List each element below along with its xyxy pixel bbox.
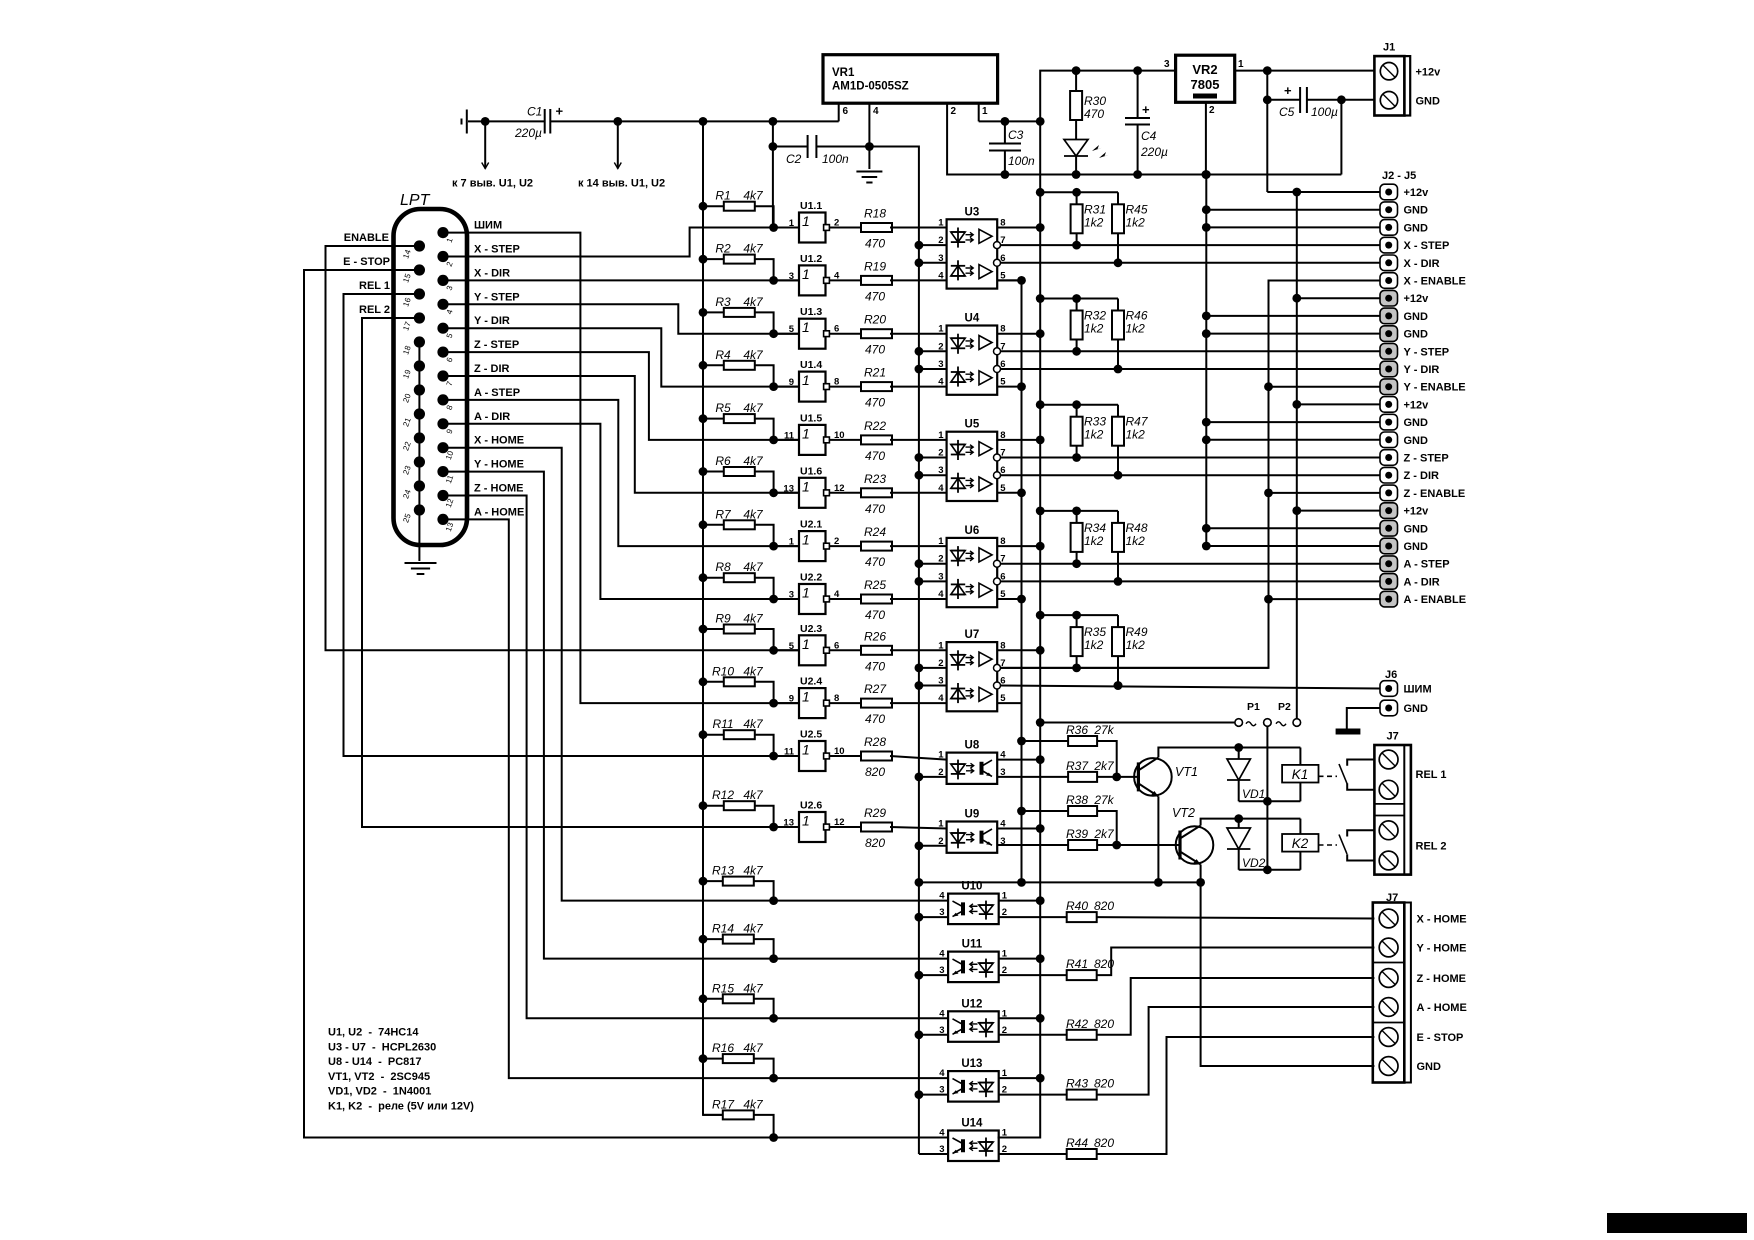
svg-text:11: 11 bbox=[784, 747, 795, 758]
wire 5V rail to bus bbox=[979, 120, 1040, 122]
svg-text:C5: C5 bbox=[1279, 105, 1295, 119]
wire U3 pin2 to gnd bus bbox=[919, 244, 947, 246]
svg-text:A - HOME: A - HOME bbox=[474, 506, 524, 518]
svg-text:R2: R2 bbox=[715, 242, 731, 256]
pin J2-J5 A - DIR row 23 bbox=[1380, 574, 1398, 590]
wire U8 pin2 to gnd bus bbox=[919, 776, 947, 778]
node gnd bus emitter rail bbox=[915, 878, 924, 887]
svg-text:R1: R1 bbox=[715, 189, 730, 203]
svg-text:U1, U2 - 74HC14: U1, U2 - 74HC14 bbox=[328, 1027, 419, 1039]
node C2 branch junction bbox=[769, 117, 778, 126]
wire U10 pin3 to gnd bus bbox=[919, 916, 948, 918]
resistor R38 27k bbox=[1017, 807, 1026, 816]
relay coil K2 bbox=[1299, 819, 1301, 834]
svg-text:1: 1 bbox=[802, 319, 810, 335]
pin J2-J5 X - DIR row 5 bbox=[1380, 255, 1398, 271]
svg-text:U1.5: U1.5 bbox=[800, 412, 822, 424]
LPT pins 1-13 bbox=[437, 227, 448, 238]
resistor R9 4k7 bbox=[699, 625, 708, 634]
wire ground rail bbox=[1005, 174, 1342, 176]
svg-text:4k7: 4k7 bbox=[743, 922, 764, 936]
node C4 bottom bbox=[1133, 170, 1142, 179]
wire U13 pin3 to gnd bus bbox=[919, 1094, 948, 1096]
svg-text:C1: C1 bbox=[527, 105, 542, 119]
svg-text:1: 1 bbox=[938, 324, 944, 335]
resistor R32 1k2 bbox=[1036, 294, 1045, 303]
wire U7 pin2 to gnd bus bbox=[919, 667, 947, 669]
wire VT2 collector bbox=[1201, 819, 1301, 826]
arrow to pin 7 of U1,U2 bbox=[484, 121, 486, 168]
svg-text:REL 1: REL 1 bbox=[1416, 769, 1447, 781]
diode VD2 bbox=[1234, 814, 1243, 823]
resistor R12 4k7 bbox=[699, 801, 708, 810]
svg-text:R23: R23 bbox=[864, 472, 886, 486]
svg-text:R45: R45 bbox=[1126, 202, 1148, 216]
node C5 top branch bbox=[1263, 66, 1272, 75]
svg-text:R47: R47 bbox=[1126, 415, 1149, 429]
svg-text:A - ENABLE: A - ENABLE bbox=[1404, 594, 1467, 606]
wire +12v bus bbox=[1296, 192, 1298, 719]
svg-text:R19: R19 bbox=[864, 259, 886, 273]
svg-text:2k7: 2k7 bbox=[1093, 827, 1115, 841]
node channel 4 input bbox=[769, 382, 778, 391]
svg-text:1: 1 bbox=[802, 266, 810, 282]
wire LPT pin 11 to row bbox=[443, 472, 948, 959]
svg-text:VT2: VT2 bbox=[1172, 806, 1195, 820]
svg-text:2: 2 bbox=[1209, 105, 1215, 116]
wire E-STOP from LPT pin 15 bbox=[304, 270, 948, 1138]
ground iso symbol bbox=[856, 171, 882, 173]
wire U6 pin3 to gnd bus bbox=[919, 580, 947, 582]
wire VT2 emitter bbox=[1200, 865, 1202, 883]
wire K2 bottom rail bbox=[1239, 869, 1301, 871]
wire VCC2 bus bbox=[998, 121, 1041, 1137]
svg-text:7805: 7805 bbox=[1191, 77, 1220, 92]
svg-text:P2: P2 bbox=[1278, 701, 1291, 713]
node GND-iso arrow junction bbox=[481, 117, 490, 126]
svg-text:R21: R21 bbox=[864, 366, 886, 380]
svg-text:E - STOP: E - STOP bbox=[343, 256, 390, 268]
IC VR2 7805 bbox=[1176, 55, 1235, 102]
resistor R29 820 bbox=[829, 826, 861, 828]
node R30 bottom bbox=[1072, 170, 1081, 179]
svg-text:4k7: 4k7 bbox=[743, 401, 764, 415]
resistor R6 4k7 bbox=[699, 467, 708, 476]
svg-text:U14: U14 bbox=[961, 1118, 983, 1130]
wire U4 pin5 to bus bbox=[997, 386, 1021, 388]
wire LPT pin 6 to row bbox=[443, 352, 799, 440]
svg-text:1k2: 1k2 bbox=[1126, 322, 1146, 336]
node C3 top bbox=[1001, 117, 1010, 126]
wire +12v row bbox=[1267, 191, 1380, 193]
wire R43 to J7 bbox=[1097, 1007, 1375, 1095]
svg-text:470: 470 bbox=[1084, 107, 1104, 121]
wire U10 pin1 to VCC2 bus bbox=[999, 900, 1040, 902]
svg-text:C3: C3 bbox=[1008, 128, 1024, 142]
svg-text:J6: J6 bbox=[1385, 669, 1397, 681]
resistor R7 4k7 bbox=[699, 520, 708, 529]
node channel 6 input bbox=[769, 488, 778, 497]
wire U7 pin7 to enable bus bbox=[1001, 667, 1269, 669]
capacitor C4 bbox=[1133, 66, 1142, 75]
svg-text:820: 820 bbox=[1094, 1077, 1114, 1091]
wire GND row bbox=[1206, 421, 1380, 423]
svg-text:5: 5 bbox=[789, 324, 795, 335]
svg-text:U2.4: U2.4 bbox=[800, 676, 822, 688]
capacitor C3 bbox=[1004, 121, 1006, 143]
wire C2 branch bbox=[772, 121, 774, 227]
svg-text:R27: R27 bbox=[864, 682, 887, 696]
svg-text:27k: 27k bbox=[1093, 793, 1114, 807]
wire U6 pin5 to bus bbox=[997, 598, 1021, 600]
svg-text:R48: R48 bbox=[1126, 521, 1148, 535]
inverter U1.4 bbox=[774, 386, 799, 388]
svg-text:4k7: 4k7 bbox=[743, 348, 764, 362]
optocoupler U11 bbox=[948, 952, 999, 983]
svg-text:U1.1: U1.1 bbox=[800, 200, 822, 212]
optocoupler U8 bbox=[947, 753, 998, 784]
wire J1 GND bbox=[1341, 99, 1374, 101]
svg-text:470: 470 bbox=[865, 502, 885, 516]
wire LPT pin 12 to row bbox=[443, 496, 948, 1019]
svg-text:R13: R13 bbox=[712, 864, 734, 878]
pin 6 of VR1 bbox=[838, 103, 840, 121]
svg-text:820: 820 bbox=[865, 836, 885, 850]
svg-text:GND: GND bbox=[1404, 205, 1429, 217]
wire emitter ground rail bbox=[919, 881, 1201, 883]
wire U12 pin1 to VCC2 bus bbox=[999, 1017, 1040, 1019]
wire U13 pin1 to VCC2 bus bbox=[999, 1077, 1040, 1079]
svg-text:VD1: VD1 bbox=[1242, 787, 1265, 801]
node channel 11 input bbox=[769, 752, 778, 761]
node input U14 bbox=[769, 1133, 778, 1142]
svg-text:Y - STEP: Y - STEP bbox=[1404, 346, 1450, 358]
wire LPT pin 2 to row bbox=[443, 228, 799, 257]
svg-text:+12v: +12v bbox=[1416, 67, 1442, 79]
svg-text:470: 470 bbox=[865, 712, 885, 726]
resistor R16 4k7 bbox=[699, 1054, 708, 1063]
svg-text:Y - STEP: Y - STEP bbox=[474, 291, 520, 303]
svg-text:E - STOP: E - STOP bbox=[1417, 1032, 1464, 1044]
svg-text:R5: R5 bbox=[715, 401, 731, 415]
svg-text:R31: R31 bbox=[1084, 202, 1106, 216]
wire U9 pin2 to gnd bus bbox=[919, 845, 947, 847]
pin J2-J5 Z - ENABLE row 18 bbox=[1380, 485, 1398, 501]
node channel 9 input bbox=[769, 646, 778, 655]
node R39 base junction bbox=[1112, 841, 1121, 850]
svg-text:R38: R38 bbox=[1066, 793, 1088, 807]
svg-text:1k2: 1k2 bbox=[1126, 215, 1146, 229]
svg-text:100n: 100n bbox=[822, 152, 849, 166]
svg-text:Y - HOME: Y - HOME bbox=[1417, 943, 1467, 955]
resistor R28 820 bbox=[829, 755, 861, 757]
wire U6 pin6 to connector bbox=[1001, 580, 1381, 582]
svg-text:1: 1 bbox=[802, 372, 810, 388]
node input U10 bbox=[769, 896, 778, 905]
resistor R2 4k7 bbox=[699, 255, 708, 264]
wire R41 to J7 bbox=[1097, 948, 1375, 976]
ground LPT symbol bbox=[405, 562, 437, 564]
resistor R46 1k2 bbox=[1117, 299, 1119, 311]
svg-text:GND: GND bbox=[1404, 523, 1429, 535]
svg-text:U5: U5 bbox=[965, 419, 980, 431]
wire isolated gnd bus bbox=[869, 147, 919, 1155]
resistor R49 1k2 bbox=[1117, 615, 1119, 627]
svg-text:GND: GND bbox=[1417, 1061, 1442, 1073]
svg-text:+12v: +12v bbox=[1404, 187, 1430, 199]
svg-text:1k2: 1k2 bbox=[1126, 428, 1146, 442]
pin J2-J5 GND row 14 bbox=[1380, 414, 1398, 430]
node C3 bottom bbox=[1001, 170, 1010, 179]
wire LPT pin 4 to row bbox=[443, 304, 799, 333]
svg-text:U2.6: U2.6 bbox=[800, 800, 822, 812]
wire isolated 5V rail bbox=[468, 120, 544, 122]
inverter U2.1 bbox=[774, 545, 799, 547]
resistor R43 820 bbox=[999, 1094, 1067, 1096]
svg-text:R10: R10 bbox=[712, 664, 734, 678]
optocoupler U6 bbox=[947, 538, 998, 607]
wire U4 pin7 to connector bbox=[1001, 350, 1381, 352]
svg-text:R7: R7 bbox=[715, 507, 732, 521]
wire GND row bbox=[1206, 545, 1380, 547]
resistor R27 470 bbox=[829, 702, 861, 704]
svg-text:C4: C4 bbox=[1141, 129, 1157, 143]
pin 4 of VR1 bbox=[868, 103, 870, 169]
svg-text:U4: U4 bbox=[965, 313, 980, 325]
resistor R23 470 bbox=[829, 492, 861, 494]
svg-text:9: 9 bbox=[789, 377, 794, 388]
pin J2-J5 GND row 20 bbox=[1380, 521, 1398, 537]
resistor R42 820 bbox=[999, 1034, 1067, 1036]
pin 2 of VR2 bbox=[1205, 102, 1207, 174]
svg-text:R14: R14 bbox=[712, 922, 734, 936]
arrow to pin 14 of U1,U2 bbox=[617, 121, 619, 168]
wire U7 pin3 to gnd bus bbox=[919, 685, 947, 687]
svg-text:+12v: +12v bbox=[1404, 293, 1430, 305]
svg-text:4: 4 bbox=[938, 483, 944, 494]
svg-text:VR1: VR1 bbox=[832, 67, 855, 79]
LED power indicator bbox=[1075, 120, 1077, 139]
wire U6 pin8 to VCC2 bus bbox=[997, 545, 1040, 547]
svg-text:GND: GND bbox=[1404, 417, 1429, 429]
svg-text:ENABLE: ENABLE bbox=[344, 232, 389, 244]
wire VR2 out to J1 bbox=[1235, 70, 1375, 72]
jumper P2 bbox=[1276, 722, 1286, 726]
svg-text:11: 11 bbox=[784, 430, 795, 441]
node bus junction bbox=[699, 117, 708, 126]
wire U4 pin3 to gnd bus bbox=[919, 368, 947, 370]
svg-text:+12v: +12v bbox=[1404, 399, 1430, 411]
wire U6 pin7 to connector bbox=[1001, 563, 1381, 565]
wire C5 branch down bbox=[1266, 71, 1268, 192]
inverter U2.2 bbox=[774, 598, 799, 600]
resistor R44 820 bbox=[999, 1153, 1067, 1155]
svg-text:R36: R36 bbox=[1066, 723, 1088, 737]
pin J2-J5 Z - STEP row 16 bbox=[1380, 450, 1398, 466]
inverter U1.3 bbox=[774, 333, 799, 335]
svg-text:R15: R15 bbox=[712, 981, 734, 995]
svg-text:R26: R26 bbox=[864, 629, 886, 643]
svg-text:1: 1 bbox=[938, 750, 944, 761]
resistor R13 4k7 bbox=[699, 877, 708, 886]
wire U14 pin1 to VCC2 bus bbox=[999, 1137, 1040, 1139]
pin J2-J5 GND row 3 bbox=[1380, 220, 1398, 236]
svg-text:4: 4 bbox=[938, 693, 944, 704]
svg-text:U2.5: U2.5 bbox=[800, 729, 822, 741]
wire GND row bbox=[1206, 315, 1380, 317]
svg-text:1: 1 bbox=[802, 636, 810, 652]
wire enable bus bbox=[997, 281, 1380, 668]
resistor R11 4k7 bbox=[699, 730, 708, 739]
svg-text:R43: R43 bbox=[1066, 1077, 1088, 1091]
svg-text:470: 470 bbox=[865, 289, 885, 303]
svg-text:4: 4 bbox=[939, 1068, 945, 1079]
wire LPT pin 1 to row bbox=[443, 233, 799, 703]
resistor R30 bbox=[1072, 66, 1081, 75]
svg-text:ШИМ: ШИМ bbox=[1404, 684, 1432, 696]
node C5 right bbox=[1337, 95, 1346, 104]
svg-text:X - STEP: X - STEP bbox=[474, 244, 520, 256]
svg-text:R22: R22 bbox=[864, 419, 886, 433]
svg-text:R12: R12 bbox=[712, 788, 734, 802]
wire U3 pin5 to bus bbox=[997, 279, 1021, 281]
svg-text:100n: 100n bbox=[1008, 154, 1035, 168]
svg-text:REL 2: REL 2 bbox=[1416, 841, 1447, 853]
svg-text:1k2: 1k2 bbox=[1084, 322, 1104, 336]
svg-text:1: 1 bbox=[789, 537, 795, 548]
svg-text:AM1D-0505SZ: AM1D-0505SZ bbox=[832, 81, 909, 93]
wire right gnd bus bbox=[1205, 175, 1207, 547]
resistor R17 4k7 bbox=[703, 1114, 723, 1116]
optocoupler U12 bbox=[948, 1011, 999, 1042]
svg-text:R6: R6 bbox=[715, 454, 731, 468]
resistor R21 470 bbox=[829, 386, 861, 388]
wire GND row bbox=[1206, 439, 1380, 441]
svg-text:R24: R24 bbox=[864, 525, 886, 539]
svg-text:+: + bbox=[1284, 83, 1292, 98]
pin J2-J5 GND row 21 bbox=[1380, 538, 1398, 554]
wire R42 to J7 bbox=[1097, 978, 1375, 1035]
svg-text:U8 - U14 - PC817: U8 - U14 - PC817 bbox=[328, 1056, 422, 1068]
resistor R19 470 bbox=[829, 279, 861, 281]
svg-text:1: 1 bbox=[802, 425, 810, 441]
svg-text:4k7: 4k7 bbox=[743, 454, 764, 468]
svg-text:820: 820 bbox=[1094, 1136, 1114, 1150]
wire K1 bottom rail bbox=[1239, 800, 1301, 802]
IC VR1 AM1D-0505SZ bbox=[823, 55, 998, 103]
resistor R47 1k2 bbox=[1117, 405, 1119, 417]
svg-text:U13: U13 bbox=[961, 1058, 982, 1070]
svg-text:REL 1: REL 1 bbox=[359, 280, 390, 292]
svg-text:R44: R44 bbox=[1066, 1136, 1088, 1150]
svg-text:1: 1 bbox=[1238, 59, 1244, 70]
wire U4 pin8 to VCC2 bus bbox=[997, 333, 1040, 335]
svg-text:R42: R42 bbox=[1066, 1017, 1088, 1031]
node right gnd bus top bbox=[1202, 170, 1211, 179]
svg-text:R16: R16 bbox=[712, 1041, 734, 1055]
wire U5 pin7 to connector bbox=[1001, 457, 1381, 459]
svg-text:2k7: 2k7 bbox=[1093, 759, 1115, 773]
svg-text:U7: U7 bbox=[965, 629, 980, 641]
svg-text:R49: R49 bbox=[1126, 625, 1148, 639]
svg-text:ШИМ: ШИМ bbox=[474, 220, 502, 232]
svg-text:U1.4: U1.4 bbox=[800, 359, 822, 371]
svg-text:1k2: 1k2 bbox=[1084, 428, 1104, 442]
svg-text:4k7: 4k7 bbox=[743, 664, 764, 678]
node bus VCC2 top corner bbox=[1036, 117, 1045, 126]
svg-text:470: 470 bbox=[865, 396, 885, 410]
svg-text:P1: P1 bbox=[1247, 701, 1260, 713]
svg-text:A - DIR: A - DIR bbox=[1404, 576, 1440, 588]
svg-text:Z - ENABLE: Z - ENABLE bbox=[1404, 488, 1466, 500]
node channel 5 input bbox=[769, 436, 778, 445]
svg-text:100µ: 100µ bbox=[1311, 105, 1338, 119]
svg-text:к 14 выв. U1, U2: к 14 выв. U1, U2 bbox=[578, 178, 665, 190]
svg-text:820: 820 bbox=[1094, 899, 1114, 913]
svg-text:3: 3 bbox=[789, 271, 794, 282]
svg-text:X - DIR: X - DIR bbox=[474, 267, 510, 279]
svg-text:VR2: VR2 bbox=[1192, 62, 1217, 77]
pin J2-J5 Z - DIR row 17 bbox=[1380, 467, 1398, 483]
svg-text:4k7: 4k7 bbox=[743, 1041, 764, 1055]
svg-text:820: 820 bbox=[1094, 1017, 1114, 1031]
wire J6 gnd bbox=[1347, 708, 1380, 729]
svg-text:J7: J7 bbox=[1387, 731, 1399, 743]
wire VT1 emitter bbox=[1157, 796, 1159, 882]
svg-text:K1, K2 - реле (5V или 12V): K1, K2 - реле (5V или 12V) bbox=[328, 1101, 474, 1113]
svg-text:+: + bbox=[556, 104, 564, 119]
svg-text:U8: U8 bbox=[965, 740, 980, 752]
node VR2 gnd bbox=[1202, 170, 1211, 179]
wire U6 pin2 to gnd bus bbox=[919, 563, 947, 565]
node channel 8 input bbox=[769, 595, 778, 604]
svg-text:Z - HOME: Z - HOME bbox=[1417, 973, 1467, 985]
resistor R8 4k7 bbox=[699, 573, 708, 582]
svg-text:470: 470 bbox=[865, 237, 885, 251]
svg-text:+: + bbox=[1142, 102, 1150, 117]
svg-text:C2: C2 bbox=[786, 152, 802, 166]
wire R44 to J7 bbox=[1097, 1037, 1375, 1154]
wire U3 pin6 to connector bbox=[1001, 262, 1381, 264]
wire U11 pin3 to gnd bus bbox=[919, 974, 948, 976]
svg-text:1: 1 bbox=[938, 536, 944, 547]
svg-text:U2.1: U2.1 bbox=[800, 519, 822, 531]
svg-text:4k7: 4k7 bbox=[743, 864, 764, 878]
svg-text:U1.3: U1.3 bbox=[800, 306, 822, 318]
svg-text:Y - HOME: Y - HOME bbox=[474, 459, 524, 471]
svg-text:GND: GND bbox=[1404, 541, 1429, 553]
svg-text:1: 1 bbox=[802, 742, 810, 758]
pin J2-J5 Y - STEP row 10 bbox=[1380, 344, 1398, 360]
svg-text:J1: J1 bbox=[1383, 42, 1395, 54]
inverter U1.5 bbox=[774, 439, 799, 441]
wire R40 to J7 bbox=[1097, 917, 1375, 918]
wire U4 pin2 to gnd bus bbox=[919, 350, 947, 352]
svg-text:R33: R33 bbox=[1084, 415, 1106, 429]
svg-text:3: 3 bbox=[1164, 59, 1170, 70]
svg-text:U2.3: U2.3 bbox=[800, 623, 822, 635]
wire U3 pin8 to VCC2 bus bbox=[997, 227, 1040, 229]
resistor R25 470 bbox=[829, 598, 861, 600]
resistor R10 4k7 bbox=[699, 677, 708, 686]
svg-text:X - ENABLE: X - ENABLE bbox=[1404, 276, 1466, 288]
svg-text:Z - STEP: Z - STEP bbox=[474, 339, 519, 351]
inverter U2.3 bbox=[774, 649, 799, 651]
svg-text:4k7: 4k7 bbox=[743, 560, 764, 574]
connector LPT shell bbox=[394, 209, 468, 545]
svg-text:4k7: 4k7 bbox=[743, 507, 764, 521]
resistor R37 2k7 bbox=[997, 776, 1068, 778]
